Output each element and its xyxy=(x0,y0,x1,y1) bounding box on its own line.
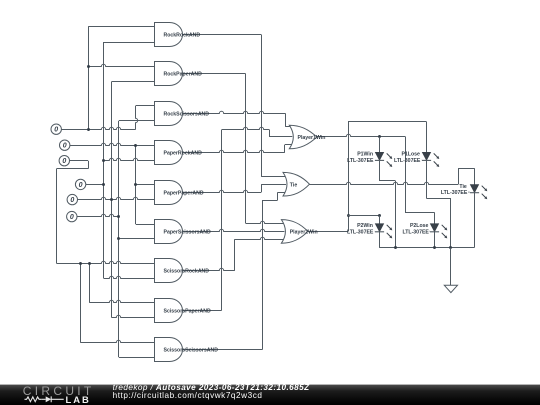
wire drop to Player1Win in1 xyxy=(285,113,287,126)
wire P1Lose anode lead xyxy=(426,122,428,153)
wire ScissorsRockAND out xyxy=(183,268,234,270)
AND gate ScissorsScissorsAND xyxy=(155,338,219,362)
svg-text:0: 0 xyxy=(62,158,66,165)
or-gate Tie xyxy=(283,172,310,196)
node P2Rock junction xyxy=(102,183,105,186)
wire P2Rock to ScissorsRockAND in2 xyxy=(104,276,155,278)
wire jog to P2Lose column xyxy=(406,212,435,214)
footer bar xyxy=(0,384,540,405)
wire RockPaperAND out xyxy=(183,73,246,75)
svg-text:0: 0 xyxy=(54,127,58,134)
svg-text:PaperPaperAND: PaperPaperAND xyxy=(164,191,204,197)
wire P1Scissors from IN3 xyxy=(69,160,88,162)
wire into Tie in3 xyxy=(278,192,287,194)
AND gate RockRockAND xyxy=(155,23,201,47)
LED P1Win LTL-307EE xyxy=(347,152,392,167)
wire branch to P2Win LED xyxy=(348,215,379,217)
svg-text:P2Lose: P2Lose xyxy=(410,223,429,229)
node rail junction ground xyxy=(449,246,452,249)
wire P1Paper to PaperPaperAND in1 xyxy=(136,184,155,186)
wire P2Scissors column xyxy=(118,121,120,357)
svg-text:RockScissorsAND: RockScissorsAND xyxy=(164,112,210,118)
svg-text:0: 0 xyxy=(63,143,67,150)
wire PaperPaperAND out xyxy=(183,190,261,192)
svg-text:LAB: LAB xyxy=(66,394,91,405)
svg-text:LTL-307EE: LTL-307EE xyxy=(402,229,429,235)
wire ScissorsPaperAND out xyxy=(183,310,222,312)
svg-text:RockPaperAND: RockPaperAND xyxy=(164,72,203,78)
wire P1Win cathode lead xyxy=(379,160,381,181)
wire into Player2Win in3 xyxy=(234,237,284,239)
node P1Scissors junction A xyxy=(79,262,82,265)
wire P1Rock riser2 xyxy=(136,106,138,129)
ground xyxy=(444,285,457,292)
wire P1Scissors long dropper xyxy=(56,169,58,264)
wire P2Paper column xyxy=(111,81,113,317)
node P2Win anode corner xyxy=(378,214,381,217)
wire rise over Tie LED xyxy=(458,168,460,184)
node P1Paper branch junction xyxy=(134,183,137,186)
svg-text:RockRockAND: RockRockAND xyxy=(164,33,201,39)
wire P1Lose cathode lead xyxy=(426,160,428,198)
wire P2Paper from IN5 to PaperPaperAND in2 xyxy=(78,197,156,199)
wire P2Rock column xyxy=(103,42,105,278)
wire P2Win cathode lead xyxy=(379,232,381,248)
wire P1Scissors to ScissorsRockAND in1 xyxy=(57,261,156,263)
logic input IN2 value 0 xyxy=(59,140,69,150)
wire RockScissorsAND out xyxy=(183,111,285,113)
svg-text:PaperScissorsAND: PaperScissorsAND xyxy=(164,230,212,236)
wire into Tie in2 xyxy=(261,184,286,186)
wire P2Lose cathode lead xyxy=(434,232,436,248)
node P1Rock branch junction xyxy=(87,65,90,68)
wire rise to Tie in2 xyxy=(261,184,263,192)
wire ScissorsPaperAND trunk up xyxy=(221,130,223,311)
wire ground lead xyxy=(450,248,452,286)
wire Tie cathode lead xyxy=(474,193,476,248)
wire Player2Win output xyxy=(308,231,348,233)
wire RockRockAND trunk down xyxy=(261,35,263,177)
wire to Player2Win in1 xyxy=(246,221,285,223)
AND gate PaperRockAND xyxy=(155,141,203,165)
node P2Scissors junction xyxy=(117,215,120,218)
wire into Player1Win in1 xyxy=(285,126,290,128)
wire ground rail xyxy=(379,247,474,249)
LED P2Lose LTL-307EE xyxy=(402,223,447,238)
wire ScissorsScissorsAND out xyxy=(183,349,262,351)
wire rise to Tie in3 xyxy=(277,192,279,200)
wire ScissorsScissorsAND trunk up xyxy=(262,200,264,350)
LED P1Lose LTL-307EE xyxy=(394,152,439,167)
wire P1Scissors dropper3 xyxy=(80,263,82,342)
svg-text:LTL-307EE: LTL-307EE xyxy=(347,158,374,164)
wire RockPaperAND trunk down xyxy=(245,74,247,224)
footer text line 2 xyxy=(113,391,263,400)
wire P2Rock to RockRockAND in2 xyxy=(104,42,155,44)
AND gate PaperPaperAND xyxy=(155,181,204,205)
wire RockRockAND out xyxy=(183,34,261,36)
or-gate Player2Win xyxy=(281,220,317,244)
AND gate PaperScissorsAND xyxy=(155,220,212,244)
wire rise to Player2Win in3 xyxy=(234,239,236,271)
svg-text:ScissorsScissorsAND: ScissorsScissorsAND xyxy=(164,348,219,354)
logic input IN6 value 0 xyxy=(67,211,77,221)
node P1Scissors junction B xyxy=(88,262,91,265)
wire P1Paper dropper xyxy=(135,145,137,224)
wire P1Rock riser xyxy=(88,27,90,129)
wire P1Win cathode jog xyxy=(379,180,395,182)
svg-text:0: 0 xyxy=(79,182,83,189)
LED P2Win LTL-307EE xyxy=(347,223,392,238)
wire P1Paper from IN2 to PaperRockAND in1 xyxy=(70,143,155,145)
CircuitLab logo xyxy=(0,384,100,405)
node rail junction P1Win cathode xyxy=(394,246,397,249)
AND gate ScissorsPaperAND xyxy=(155,299,212,323)
wire rise to Player1Win in3 xyxy=(284,145,286,153)
wire P1Lose cathode jog xyxy=(426,198,451,200)
LED Tie LTL-307EE xyxy=(441,184,487,199)
wire P1Paper to PaperScissorsAND in1 xyxy=(136,224,155,226)
svg-text:P1Win: P1Win xyxy=(357,152,373,158)
wire P2Win anode lead xyxy=(379,216,381,224)
node P2Rock branch junction xyxy=(102,159,105,162)
node P2Scissors branch junction xyxy=(117,237,120,240)
node Player2Win branch junction xyxy=(347,214,350,217)
wire P1Scissors jog down xyxy=(88,161,90,169)
logic input IN5 value 0 xyxy=(67,194,77,204)
wire top rail to P1Lose xyxy=(348,121,426,123)
wire P2Scissors to PaperScissorsAND in2 xyxy=(119,238,155,240)
svg-text:Player1Win: Player1Win xyxy=(298,135,326,141)
node rail junction P2Lose cathode xyxy=(433,246,436,249)
svg-text:LTL-307EE: LTL-307EE xyxy=(347,229,374,235)
or-gate Player1Win xyxy=(289,125,325,149)
svg-text:ScissorsRockAND: ScissorsRockAND xyxy=(164,269,210,275)
wire drop toward P2Lose xyxy=(405,137,407,213)
node P1Rock junction xyxy=(87,128,90,131)
AND gate RockPaperAND xyxy=(155,62,203,86)
wire Tie anode lead xyxy=(474,168,476,185)
node P1Paper junction xyxy=(134,144,137,147)
wire into Player1Win in2 xyxy=(269,136,292,138)
AND gate ScissorsRockAND xyxy=(155,259,210,283)
wire PaperRockAND out xyxy=(183,150,285,152)
svg-text:LTL-307EE: LTL-307EE xyxy=(394,158,421,164)
wire P1Rock to RockRockAND in1 xyxy=(88,26,155,28)
svg-text:ScissorsPaperAND: ScissorsPaperAND xyxy=(164,309,212,315)
footer text line 1 xyxy=(113,383,310,392)
wire P1Lose cathode drop xyxy=(450,198,452,248)
logic input IN1 value 0 xyxy=(51,124,61,134)
wire P2Scissors from IN6 xyxy=(77,214,119,216)
AND gate RockScissorsAND xyxy=(155,102,210,126)
svg-text:P2Win: P2Win xyxy=(357,223,373,229)
wire P2Scissors to ScissorsScissorsAND in2 xyxy=(119,357,155,359)
svg-text:0: 0 xyxy=(70,214,74,221)
wire P1Rock to RockScissorsAND in1 xyxy=(136,105,155,107)
wire jog right xyxy=(262,200,278,202)
logic input IN4 value 0 xyxy=(75,179,85,189)
wire P2Scissors to RockScissorsAND in2 xyxy=(119,120,155,122)
svg-text:0: 0 xyxy=(70,197,74,204)
wire P1Win cathode drop xyxy=(395,181,397,248)
wire to Tie in1 xyxy=(261,176,286,178)
wire Tie output xyxy=(310,182,459,184)
wire P1Scissors dropper2 xyxy=(89,263,91,302)
svg-text:LTL-307EE: LTL-307EE xyxy=(441,190,468,196)
node Player1Win-anode junction xyxy=(378,135,381,138)
svg-text:Player2Win: Player2Win xyxy=(290,230,318,236)
svg-text:P1Lose: P1Lose xyxy=(401,152,420,158)
wire toward Player1Win in2 xyxy=(222,127,270,129)
wire jog to Player1Win in2 xyxy=(269,130,271,137)
node P2Paper junction xyxy=(110,198,113,201)
wire over to Tie LED xyxy=(458,168,474,170)
wire P2Paper to ScissorsPaperAND in2 xyxy=(112,315,155,317)
wire P2Rock from IN4 xyxy=(86,184,104,186)
wire P1Scissors to ScissorsPaperAND in1 xyxy=(89,300,155,302)
svg-text:Tie: Tie xyxy=(459,184,467,190)
logic input IN3 value 0 xyxy=(59,156,69,166)
wire Player2Win trunk up xyxy=(348,122,350,232)
wire into Player1Win in3 xyxy=(285,144,293,146)
wire P2Rock to PaperRockAND in2 xyxy=(104,158,155,160)
wire P2Lose anode lead xyxy=(434,213,436,224)
wire P1Scissors jog left xyxy=(57,168,89,170)
svg-text:PaperRockAND: PaperRockAND xyxy=(164,151,203,157)
wire P1Rock from IN1 to column xyxy=(61,127,135,129)
wire P1Win anode lead xyxy=(379,137,381,153)
wire P1Rock to RockPaperAND in1 xyxy=(88,64,155,66)
wire Player1Win output xyxy=(317,134,406,136)
wire PaperScissorsAND out to Player2Win in2 xyxy=(183,229,284,231)
svg-text:Tie: Tie xyxy=(290,182,298,188)
wire P1Scissors to ScissorsScissorsAND in1 xyxy=(80,340,155,342)
wire P2Paper to RockPaperAND in2 xyxy=(112,81,155,83)
